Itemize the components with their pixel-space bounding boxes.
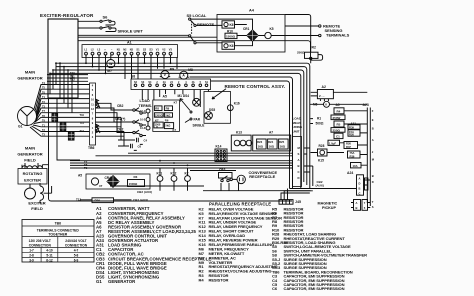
svg-text:V3: V3 — [169, 48, 173, 52]
svg-text:MAIN: MAIN — [25, 146, 35, 151]
svg-text:2A: 2A — [163, 81, 166, 84]
svg-text:V2: V2 — [162, 48, 166, 52]
svg-text:M: M — [372, 158, 375, 162]
svg-text:R6: R6 — [165, 118, 169, 122]
labels T10 T11 T12 at TB6 — [80, 113, 85, 133]
svg-text:240/416 VOLT: 240/416 VOLT — [65, 239, 86, 243]
svg-text:+: + — [104, 49, 106, 52]
relay K14 — [215, 145, 227, 162]
svg-text:E: E — [372, 118, 374, 122]
svg-text:R1: R1 — [317, 116, 321, 120]
svg-text:Ω: Ω — [156, 125, 158, 129]
svg-text:M: M — [298, 146, 301, 150]
legend column 2 — [199, 206, 283, 282]
svg-text:16Ω: 16Ω — [280, 144, 286, 148]
meter M6 frequency — [313, 101, 330, 107]
wire bus T9 — [70, 164, 293, 166]
svg-text:R2: R2 — [312, 45, 316, 49]
wire A23 to actuator — [364, 180, 371, 206]
svg-text:S4: S4 — [148, 81, 152, 84]
generator G1 — [18, 107, 37, 129]
leader remote control — [212, 89, 226, 99]
wire A1 L2 drop — [92, 55, 94, 67]
svg-text:S2: S2 — [134, 81, 138, 84]
svg-text:(AUX): (AUX) — [316, 184, 324, 188]
svg-text:10-2: 10-2 — [140, 118, 146, 122]
wire exciter lead — [57, 98, 80, 160]
svg-text:R39: R39 — [349, 125, 354, 129]
svg-text:4A: 4A — [192, 81, 195, 84]
breaker CB3 — [219, 168, 233, 182]
svg-text:K6: K6 — [230, 44, 234, 48]
svg-text:9: 9 — [92, 121, 94, 125]
wire mid bus upper — [128, 152, 293, 154]
rheostat R1 — [316, 116, 324, 125]
remote control assy box — [204, 92, 231, 124]
ammeter M8 — [179, 68, 193, 79]
svg-text:R26: R26 — [349, 133, 354, 137]
svg-text:FIELD: FIELD — [24, 158, 36, 163]
svg-text:10: 10 — [91, 98, 94, 102]
svg-text:T12: T12 — [70, 78, 75, 82]
load terminal 10-1 — [140, 109, 150, 113]
svg-text:GENERATOR: GENERATOR — [108, 279, 136, 284]
current transformer CT1 — [52, 114, 58, 122]
resistor R25 — [279, 139, 289, 149]
A23 terminal letters — [372, 109, 375, 209]
labels T1-T12 — [42, 82, 46, 137]
svg-text:CB2 (AUX): CB2 (AUX) — [133, 198, 148, 202]
junction dot R2 bus — [310, 57, 312, 59]
svg-text:4-10: 4-10 — [46, 248, 53, 252]
svg-text:K2: K2 — [185, 171, 189, 175]
capacitor C4 — [132, 138, 148, 145]
svg-text:S1: S1 — [136, 48, 140, 52]
svg-text:A7: A7 — [269, 131, 273, 135]
svg-text:7: 7 — [92, 112, 94, 116]
wires right column taps — [310, 92, 367, 165]
svg-text:N3: N3 — [130, 48, 134, 52]
svg-text:V: V — [325, 103, 327, 107]
svg-text:A5: A5 — [336, 103, 340, 107]
diode bridge CR1 — [243, 27, 258, 41]
resistor zigzag on TB6 — [96, 99, 101, 108]
governor assembly A3 — [348, 121, 360, 136]
lamp DS5 — [205, 108, 216, 120]
svg-text:R36: R36 — [350, 154, 355, 158]
svg-text:2: 2 — [92, 131, 94, 135]
svg-text:M1 DS4: M1 DS4 — [178, 94, 190, 98]
relay K6a — [222, 21, 235, 28]
terminal remote sensing 1 — [319, 25, 321, 27]
svg-text:C: C — [359, 192, 361, 196]
svg-text:5: 5 — [92, 88, 94, 92]
switch S6 pole2 — [100, 27, 116, 32]
svg-text:D: D — [298, 176, 300, 180]
svg-text:V1: V1 — [156, 48, 160, 52]
governor actuator A24 — [347, 171, 368, 196]
label REMOTE SENSING TERMINALS — [323, 23, 350, 37]
LEFT-TOP — [17, 9, 374, 212]
current transformer CT3 — [68, 132, 74, 140]
relay K11 — [157, 171, 163, 181]
svg-text:A: A — [356, 201, 358, 205]
svg-text:K7: K7 — [174, 101, 178, 105]
svg-text:EXCITER-REGULATOR: EXCITER-REGULATOR — [40, 13, 94, 18]
convenience receptacle symbol — [230, 175, 245, 183]
svg-text:R28: R28 — [319, 144, 325, 148]
A1 terminals L1 L2 L3 + - N1 N2 N3 S1 S2 S3 V1 V2 V3 — [84, 48, 172, 55]
wire S5 remote to A4 — [196, 24, 222, 26]
svg-text:C4: C4 — [144, 139, 148, 143]
svg-text:S: S — [298, 152, 300, 156]
svg-text:5-11: 5-11 — [46, 254, 52, 258]
svg-text:250W: 250W — [333, 116, 341, 120]
wire regulator bus c — [78, 41, 311, 57]
svg-text:S6: S6 — [103, 14, 109, 19]
wire bus L3 long — [53, 70, 304, 182]
label CONVENIENCE RECEPTACLE — [249, 170, 278, 179]
transformer XT — [91, 178, 102, 188]
rheostat R28 — [318, 144, 328, 156]
wires generator to TB6 — [46, 85, 90, 137]
wire regulator to S6 pole2 — [78, 27, 100, 29]
svg-text:L3: L3 — [97, 48, 101, 52]
svg-text:250Ω: 250Ω — [333, 128, 341, 132]
dc relay assembly A5 box — [153, 100, 180, 131]
svg-text:S2: S2 — [143, 48, 147, 52]
wire stair 4 — [59, 63, 61, 98]
label MAGNETIC PICKUP — [318, 202, 338, 211]
svg-text:K13: K13 — [236, 131, 242, 135]
switch strip S8 — [131, 79, 211, 90]
svg-text:5kΩ: 5kΩ — [165, 124, 170, 128]
rheostat R2 — [285, 15, 323, 64]
svg-text:R8: R8 — [155, 107, 159, 111]
resistor R5 — [334, 121, 344, 127]
svg-text:FIELD: FIELD — [31, 206, 43, 211]
relay K13 — [231, 131, 252, 151]
svg-text:D: D — [359, 182, 361, 186]
terminal strip A1 — [82, 45, 178, 58]
wire A1 L3 drop — [98, 55, 100, 70]
svg-text:16Ω: 16Ω — [258, 144, 264, 148]
svg-text:1200Ω: 1200Ω — [155, 113, 163, 117]
resistor R3 — [128, 175, 145, 186]
svg-text:K16: K16 — [234, 102, 240, 106]
wire S5 pole2 to A4 — [196, 42, 222, 44]
load terminal 10-2 — [140, 118, 150, 122]
wire stair 1 — [55, 63, 57, 84]
svg-text:5kΩ: 5kΩ — [165, 113, 170, 117]
wires S8 to below — [142, 90, 208, 108]
lamp DS4 — [193, 98, 201, 106]
wire bus T0 — [70, 167, 293, 169]
switch PAR-SINGLE — [180, 99, 204, 128]
svg-text:12: 12 — [91, 107, 94, 111]
relay K2 — [185, 171, 191, 181]
svg-text:K14: K14 — [216, 145, 222, 149]
relay K12 — [171, 171, 177, 181]
resistor 250W — [331, 115, 345, 120]
wires TB6 to load bus extra — [96, 117, 133, 146]
svg-text:MAIN: MAIN — [25, 70, 35, 75]
wires A1 to S8 drops — [119, 55, 178, 79]
svg-text:T10: T10 — [80, 113, 85, 117]
labels TY7 TY8 TY9 — [84, 160, 88, 170]
svg-text:2 - -: 2 - - — [319, 94, 324, 98]
wire A1 L1 drop — [85, 55, 87, 63]
control panel relay assembly A4 box — [217, 15, 285, 53]
svg-text:CAPACITOR, EMI SUPPRESSION: CAPACITOR, EMI SUPPRESSION — [284, 286, 345, 291]
generator winding leads T1-T12 — [30, 85, 46, 137]
relay K6b — [222, 42, 235, 49]
svg-text:R4: R4 — [199, 278, 205, 283]
svg-text:C1: C1 — [336, 135, 340, 139]
svg-text:T11: T11 — [80, 121, 85, 125]
svg-text:T12: T12 — [80, 129, 85, 133]
label MAIN GENERATOR — [17, 70, 42, 81]
svg-text:K7: K7 — [173, 128, 177, 132]
switch S5 local-remote — [189, 18, 197, 44]
svg-text:CB2 (AUX): CB2 (AUX) — [137, 190, 152, 194]
wire T12 — [47, 80, 88, 82]
capacitor C1 — [334, 133, 343, 138]
wire bus T0b — [190, 170, 236, 172]
svg-text:5: 5 — [200, 81, 202, 84]
svg-text:1500Ω: 1500Ω — [226, 35, 236, 39]
svg-text:CB3: CB3 — [219, 168, 226, 172]
svg-text:A: A — [182, 74, 185, 78]
svg-text:CONNECTION: CONNECTION — [29, 243, 52, 247]
resistor zigzag2 on TB6 — [96, 124, 101, 133]
wire regulator bus b — [78, 36, 217, 38]
svg-text:K5: K5 — [270, 27, 274, 31]
svg-text:S5 LOCAL: S5 LOCAL — [187, 13, 207, 18]
svg-text:8: 8 — [92, 116, 94, 120]
wire left main bus — [49, 98, 293, 201]
wire CB2 aux right — [316, 180, 324, 188]
resistor R24 — [268, 139, 278, 149]
svg-text:REMOTE: REMOTE — [197, 22, 214, 27]
svg-text:1: 1 — [92, 126, 94, 130]
svg-text:UNIT: UNIT — [293, 129, 300, 133]
svg-text:TERMS.: TERMS. — [139, 104, 153, 108]
svg-text:MAGNETIC: MAGNETIC — [318, 202, 338, 206]
svg-text:M9: M9 — [170, 68, 175, 72]
svg-text:A: A — [298, 158, 300, 162]
svg-text:CB2: CB2 — [117, 128, 124, 132]
resistor 75A R36 — [348, 151, 361, 158]
svg-text:A5: A5 — [78, 174, 82, 178]
svg-text:1500Ω: 1500Ω — [129, 182, 138, 186]
svg-text:M8: M8 — [188, 68, 193, 72]
svg-text:A4: A4 — [249, 9, 255, 13]
meter M7 kilowatt — [107, 55, 115, 73]
wire bus N long — [50, 73, 301, 188]
svg-text:250Ω: 250Ω — [297, 51, 305, 55]
labels T10 T11 T12 — [70, 71, 75, 82]
svg-text:S3: S3 — [141, 81, 145, 84]
svg-text:R37: R37 — [346, 145, 351, 149]
svg-text:R9: R9 — [166, 107, 170, 111]
svg-text:5-8: 5-8 — [74, 254, 79, 258]
svg-text:2-8: 2-8 — [29, 254, 34, 258]
svg-text:4-7: 4-7 — [74, 248, 79, 252]
svg-text:1.0μF: 1.0μF — [329, 141, 337, 145]
svg-text:A24: A24 — [347, 171, 353, 175]
wire A1 plus drop — [105, 55, 107, 73]
svg-text:7: 7 — [364, 201, 366, 205]
svg-text:B: B — [372, 127, 374, 131]
relay K16 — [227, 102, 239, 111]
svg-text:B: B — [372, 174, 374, 178]
resistor 1200 — [154, 113, 163, 118]
svg-text:S3: S3 — [149, 48, 153, 52]
junction dots bus — [49, 62, 188, 166]
svg-text:L2: L2 — [91, 48, 95, 52]
wire bus T7 — [70, 160, 293, 162]
wire meter bus upper — [190, 77, 293, 151]
svg-text:R3: R3 — [134, 175, 138, 179]
wire stair 7 — [71, 75, 73, 113]
wire A23 line1 — [366, 108, 368, 200]
svg-text:SINGLE UNIT: SINGLE UNIT — [118, 29, 144, 34]
svg-text:N1: N1 — [117, 48, 121, 52]
svg-text:PAR: PAR — [194, 118, 201, 122]
switch S6 pole1 — [100, 20, 115, 25]
svg-text:G1: G1 — [96, 279, 102, 284]
wire A4 to remote sensing 2 — [285, 35, 319, 37]
wires TB6 to CB2 — [96, 103, 149, 135]
svg-text:4: 4 — [185, 81, 187, 84]
svg-text:K15: K15 — [318, 159, 324, 163]
resistor R4 — [334, 108, 344, 114]
svg-text:K6: K6 — [230, 23, 234, 27]
voltmeter M9 — [160, 68, 175, 79]
svg-text:REMOTE CONTROL ASSY.: REMOTE CONTROL ASSY. — [225, 84, 286, 89]
exciter coil — [25, 163, 44, 203]
svg-text:A: A — [359, 177, 361, 181]
rheostat R29 — [92, 198, 114, 203]
svg-text:K11: K11 — [157, 171, 163, 175]
svg-text:SINGLE: SINGLE — [193, 124, 205, 128]
resistor R23 — [257, 139, 267, 149]
svg-text:R4: R4 — [337, 109, 341, 113]
wires K relays — [160, 168, 188, 191]
wire S5 local to A4 — [191, 18, 218, 20]
svg-text:–: – — [111, 49, 113, 52]
label LOAD TERMS — [139, 99, 153, 108]
svg-text:CR1: CR1 — [243, 27, 250, 31]
wire regulator bus a — [78, 34, 189, 36]
svg-text:500Ω: 500Ω — [316, 121, 324, 125]
magnetic pickup connector — [351, 200, 370, 211]
svg-text:CB2: CB2 — [117, 104, 124, 108]
svg-text:TERMINALS: TERMINALS — [326, 33, 350, 38]
svg-text:2: 2 — [156, 81, 158, 84]
resistor R9 — [164, 106, 172, 111]
svg-text:A: A — [372, 138, 374, 142]
contactor CB2 c — [117, 128, 142, 137]
resistor 10A — [351, 163, 362, 168]
wire R29 — [80, 199, 132, 201]
svg-text:GENERATOR: GENERATOR — [17, 152, 42, 157]
resistor 5k b — [164, 123, 173, 129]
svg-text:1-7: 1-7 — [29, 248, 34, 252]
wire stair 2 — [52, 70, 54, 89]
wire T10 — [47, 74, 88, 76]
legend column 1 — [96, 206, 211, 284]
resistor assembly A7 — [253, 131, 291, 151]
capacitor C6 — [126, 144, 142, 151]
wire stair 6 — [67, 70, 69, 108]
svg-text:EXCITER: EXCITER — [24, 178, 41, 183]
capacitor 10uF — [328, 140, 340, 145]
svg-text:TB6: TB6 — [55, 222, 62, 226]
svg-text:C: C — [298, 170, 300, 174]
svg-text:2: 2 — [178, 81, 180, 84]
load measuring unit — [293, 117, 303, 187]
svg-text:6-12: 6-12 — [46, 258, 53, 262]
svg-text:11: 11 — [91, 102, 94, 106]
diode assembly A5-CR4 box — [86, 174, 150, 189]
svg-text:B: B — [298, 164, 300, 168]
wire lower long — [110, 185, 204, 187]
wire S8 bus upper — [211, 81, 290, 151]
svg-text:5: 5 — [364, 206, 366, 210]
svg-text:R10: R10 — [227, 29, 233, 33]
wire stair 3 — [49, 73, 51, 94]
current transformer CT2 — [60, 123, 66, 131]
wire stair 5 — [63, 67, 65, 104]
wire bus T8 — [70, 162, 293, 164]
wire receptacle row — [203, 183, 311, 191]
resistor 250ohm — [331, 128, 345, 133]
svg-text:TB6: TB6 — [88, 146, 95, 150]
svg-text:C6: C6 — [272, 286, 278, 291]
svg-text:J: J — [372, 150, 374, 154]
svg-text:R5: R5 — [337, 123, 341, 127]
svg-text:TOGETHER: TOGETHER — [48, 233, 67, 237]
svg-text:A5: A5 — [163, 94, 167, 98]
svg-text:CONNECTION: CONNECTION — [65, 243, 88, 247]
svg-text:10A: 10A — [353, 164, 358, 168]
svg-text:C6: C6 — [138, 145, 142, 149]
svg-text:PICKUP: PICKUP — [322, 206, 336, 210]
svg-text:B: B — [359, 187, 361, 191]
svg-text:4: 4 — [92, 84, 94, 88]
svg-text:S1: S1 — [205, 81, 209, 84]
reconnection table TB6 — [22, 220, 94, 263]
svg-text:F: F — [372, 109, 374, 113]
svg-text:XT: XT — [99, 184, 103, 188]
wire T11 — [47, 77, 88, 79]
svg-text:A23: A23 — [363, 103, 369, 107]
svg-text:DS5: DS5 — [209, 108, 215, 112]
svg-text:120/ 208 VOLT: 120/ 208 VOLT — [29, 239, 51, 243]
terminal remote sensing 2 — [319, 34, 321, 36]
exciter-regulator block — [48, 19, 78, 98]
svg-text:3-9: 3-9 — [29, 258, 34, 262]
svg-text:RECEPTACLE: RECEPTACLE — [249, 174, 275, 179]
svg-text:S: S — [372, 205, 374, 209]
resistor R26 R37 — [344, 142, 358, 149]
legend column 3 — [272, 206, 367, 291]
svg-text:A2: A2 — [322, 85, 326, 89]
wire bus L2 long — [56, 67, 307, 185]
svg-text:A1: A1 — [127, 40, 132, 44]
